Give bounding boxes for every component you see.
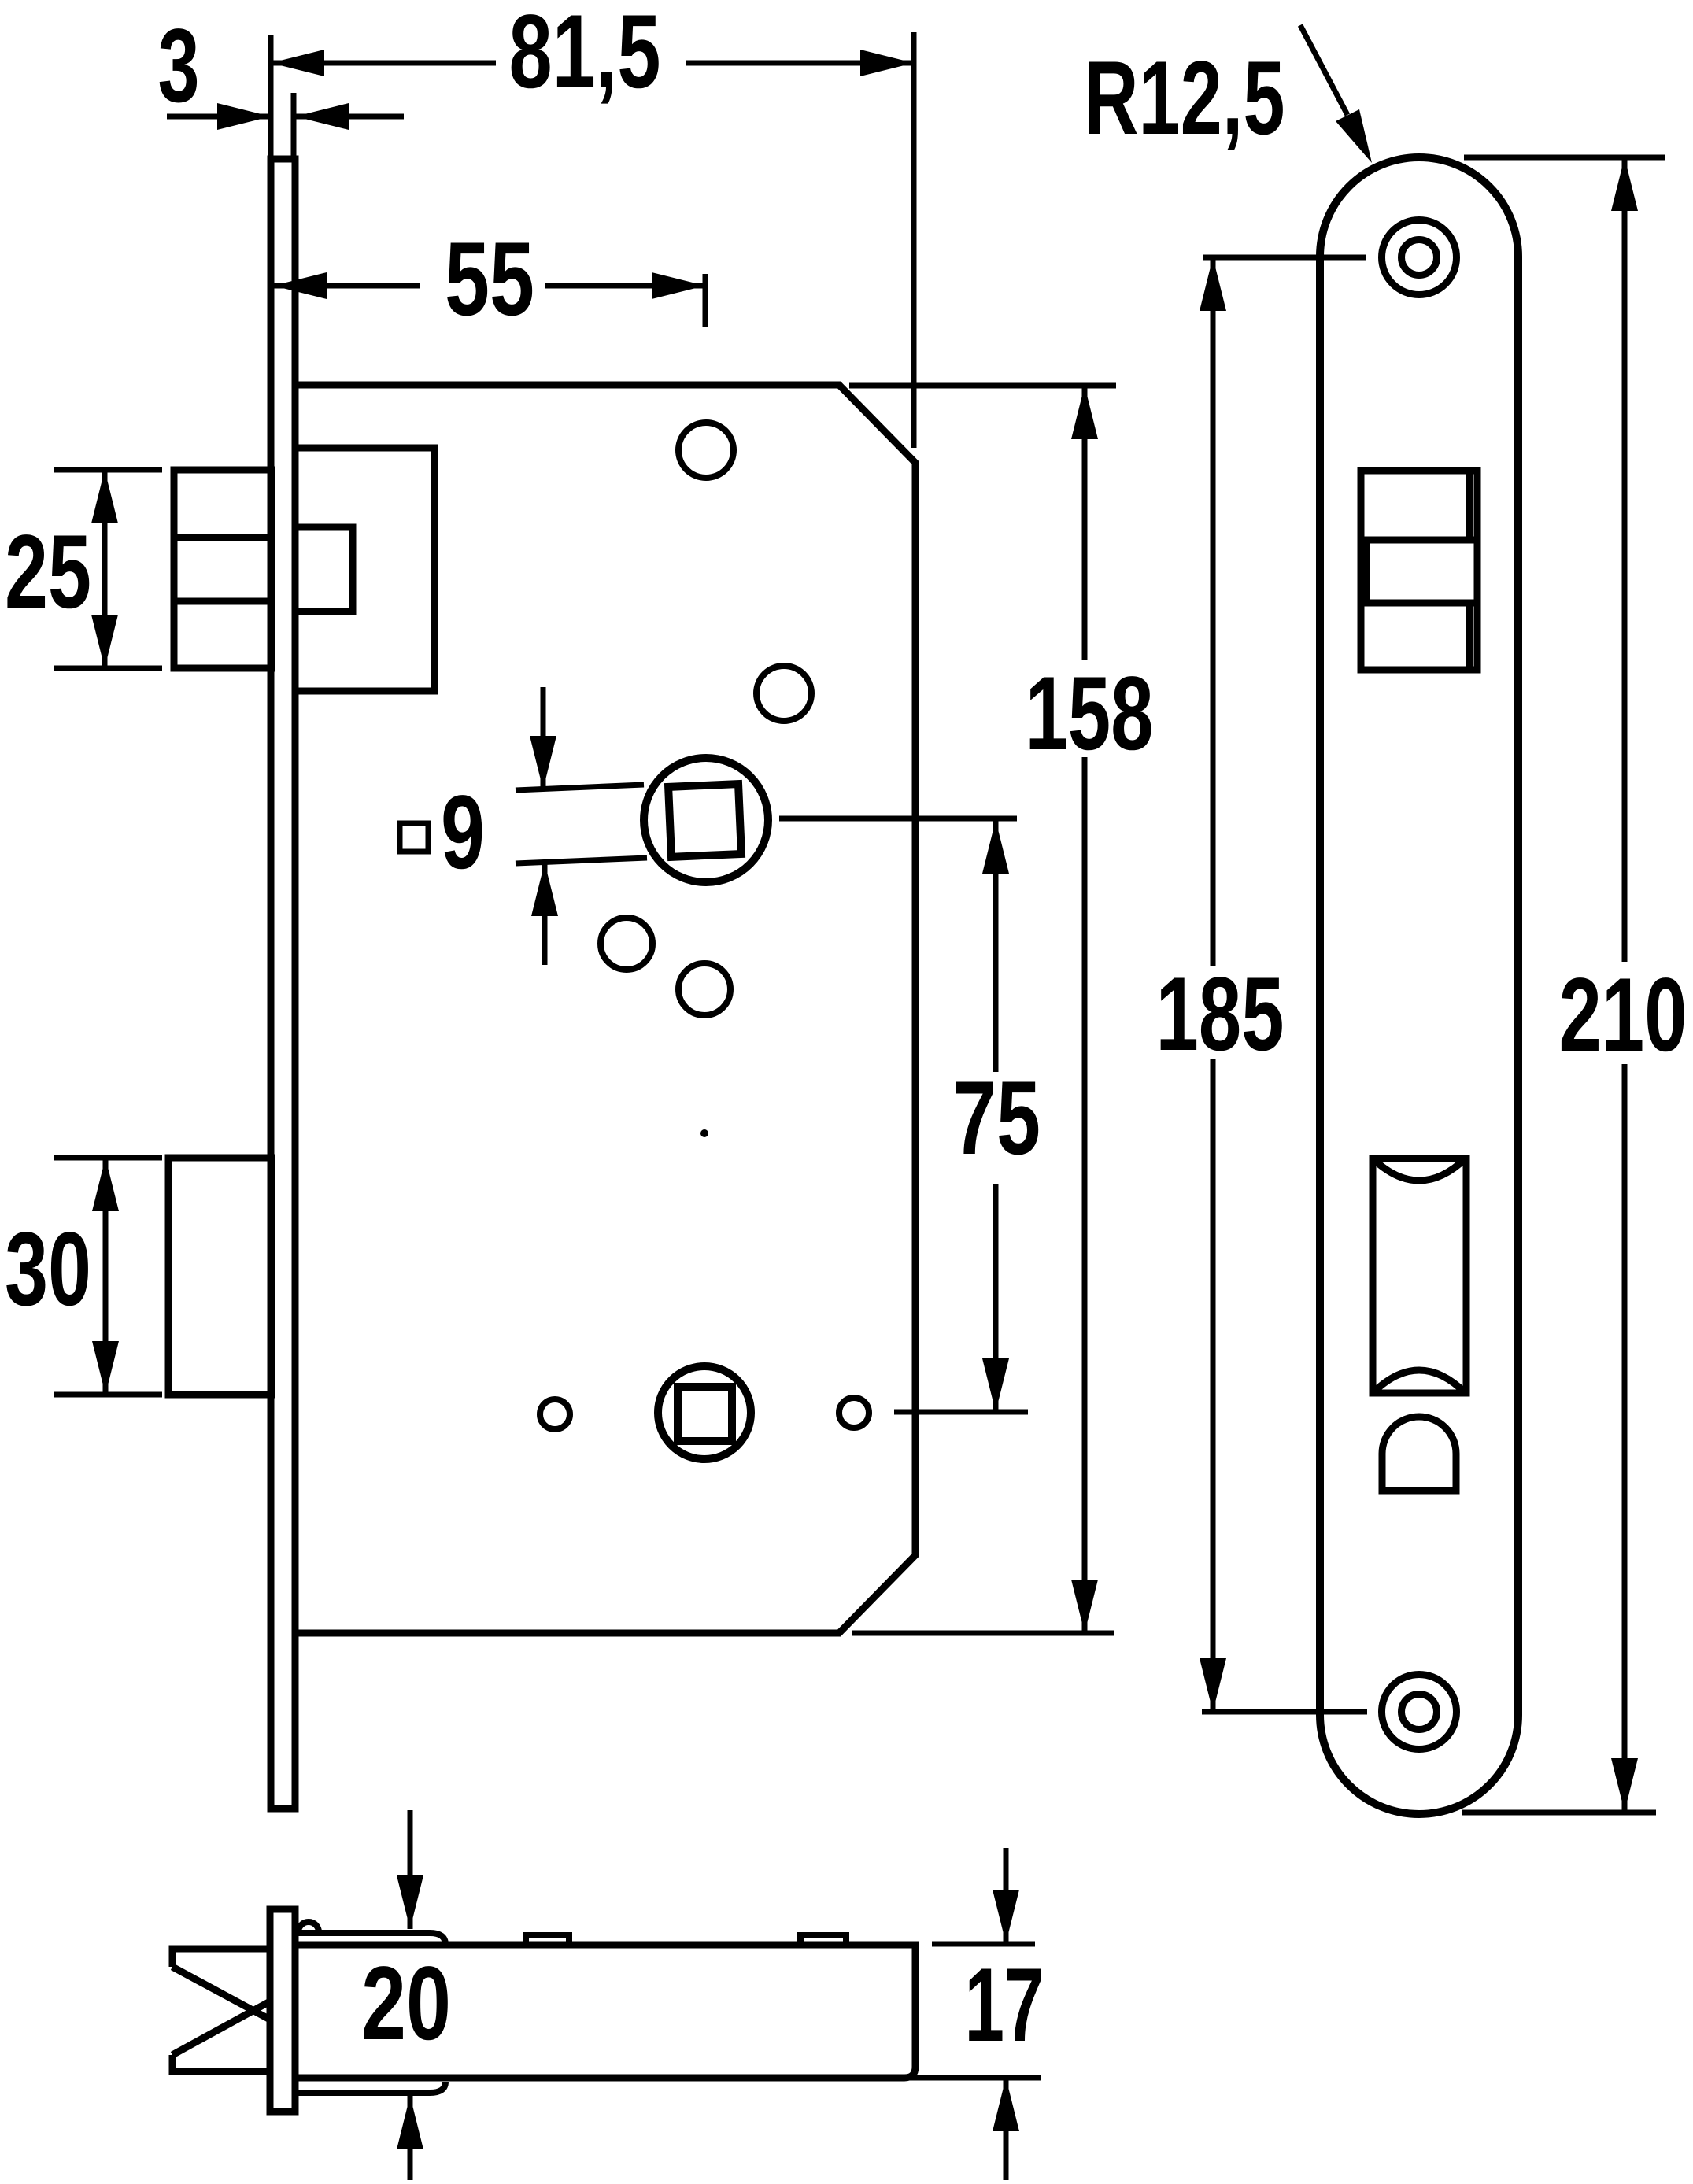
svg-text:25: 25 bbox=[5, 514, 91, 630]
svg-text:30: 30 bbox=[5, 1211, 91, 1328]
svg-text:R12,5: R12,5 bbox=[1085, 40, 1285, 157]
svg-text:185: 185 bbox=[1156, 956, 1285, 1073]
svg-text:75: 75 bbox=[952, 1060, 1041, 1177]
svg-text:17: 17 bbox=[965, 1947, 1044, 2064]
svg-text:20: 20 bbox=[361, 1946, 451, 2062]
svg-text:158: 158 bbox=[1026, 656, 1154, 772]
svg-text:210: 210 bbox=[1559, 957, 1687, 1074]
svg-text:81,5: 81,5 bbox=[509, 0, 661, 110]
svg-text:9: 9 bbox=[441, 774, 485, 891]
svg-text:3: 3 bbox=[158, 8, 200, 124]
svg-text:55: 55 bbox=[445, 221, 534, 338]
